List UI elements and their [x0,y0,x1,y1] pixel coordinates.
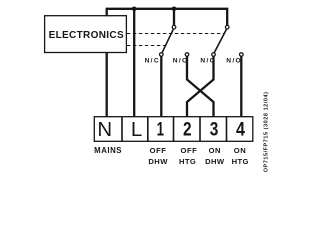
dashed link: electronics to switch S1 blade [127,45,166,47]
terminal divider L|1 [147,117,149,142]
switch S2 blade [214,29,226,53]
electronics box U1 [45,16,127,53]
svg-text:ON: ON [209,146,221,155]
terminal divider N|L [121,117,123,142]
svg-text:HTG: HTG [232,157,249,166]
svg-text:N: N [97,119,112,141]
switch S1 pivot [172,25,176,29]
dashed link: electronics to switch S2 blade [127,33,224,35]
wire: S2 N/O contact to terminal 4 [240,56,242,117]
wire: L line from rail to terminal L [133,9,135,118]
wire: S1 N/O contact to terminal 3 (crossover) [187,56,214,117]
contact S2 N/O [240,53,244,57]
switch S1 blade [162,29,173,53]
svg-text:L: L [131,119,142,141]
svg-text:OP715/FP715 (3028 12/04): OP715/FP715 (3028 12/04) [263,92,269,173]
svg-text:1: 1 [157,119,164,141]
svg-text:DHW: DHW [148,157,168,166]
svg-text:ON: ON [234,146,246,155]
svg-text:HTG: HTG [179,157,196,166]
wire: drop from rail to switch S1 common [173,9,175,26]
svg-text:OFF: OFF [181,146,198,155]
svg-text:N/C: N/C [145,58,160,65]
terminal divider 3|4 [226,117,228,142]
wire: box bottom to terminal N [106,52,108,117]
terminal divider 2|3 [199,117,201,142]
svg-text:N/O: N/O [226,58,242,65]
terminal divider 1|2 [173,117,175,142]
svg-text:2: 2 [183,119,192,141]
node: junction dot rail/S1 [172,7,177,12]
wire: S2 N/C contact to terminal 2 (crossover) [187,56,214,117]
contact S2 N/C [212,53,216,57]
svg-text:DHW: DHW [205,157,225,166]
wire: S1 N/C contact to terminal 1 [160,56,162,117]
wire: box top stub, L rail, drop to switch S2 common [107,9,228,26]
contact S1 N/C [160,53,164,57]
svg-text:MAINS: MAINS [94,146,122,155]
svg-text:3: 3 [210,119,219,141]
svg-text:ELECTRONICS: ELECTRONICS [49,30,124,41]
node: junction dot rail/L [132,7,137,12]
switch S2 pivot [225,25,229,29]
contact S1 N/O [185,53,189,57]
svg-text:OFF: OFF [150,146,167,155]
svg-text:4: 4 [236,119,245,141]
terminal strip outline [94,117,253,142]
